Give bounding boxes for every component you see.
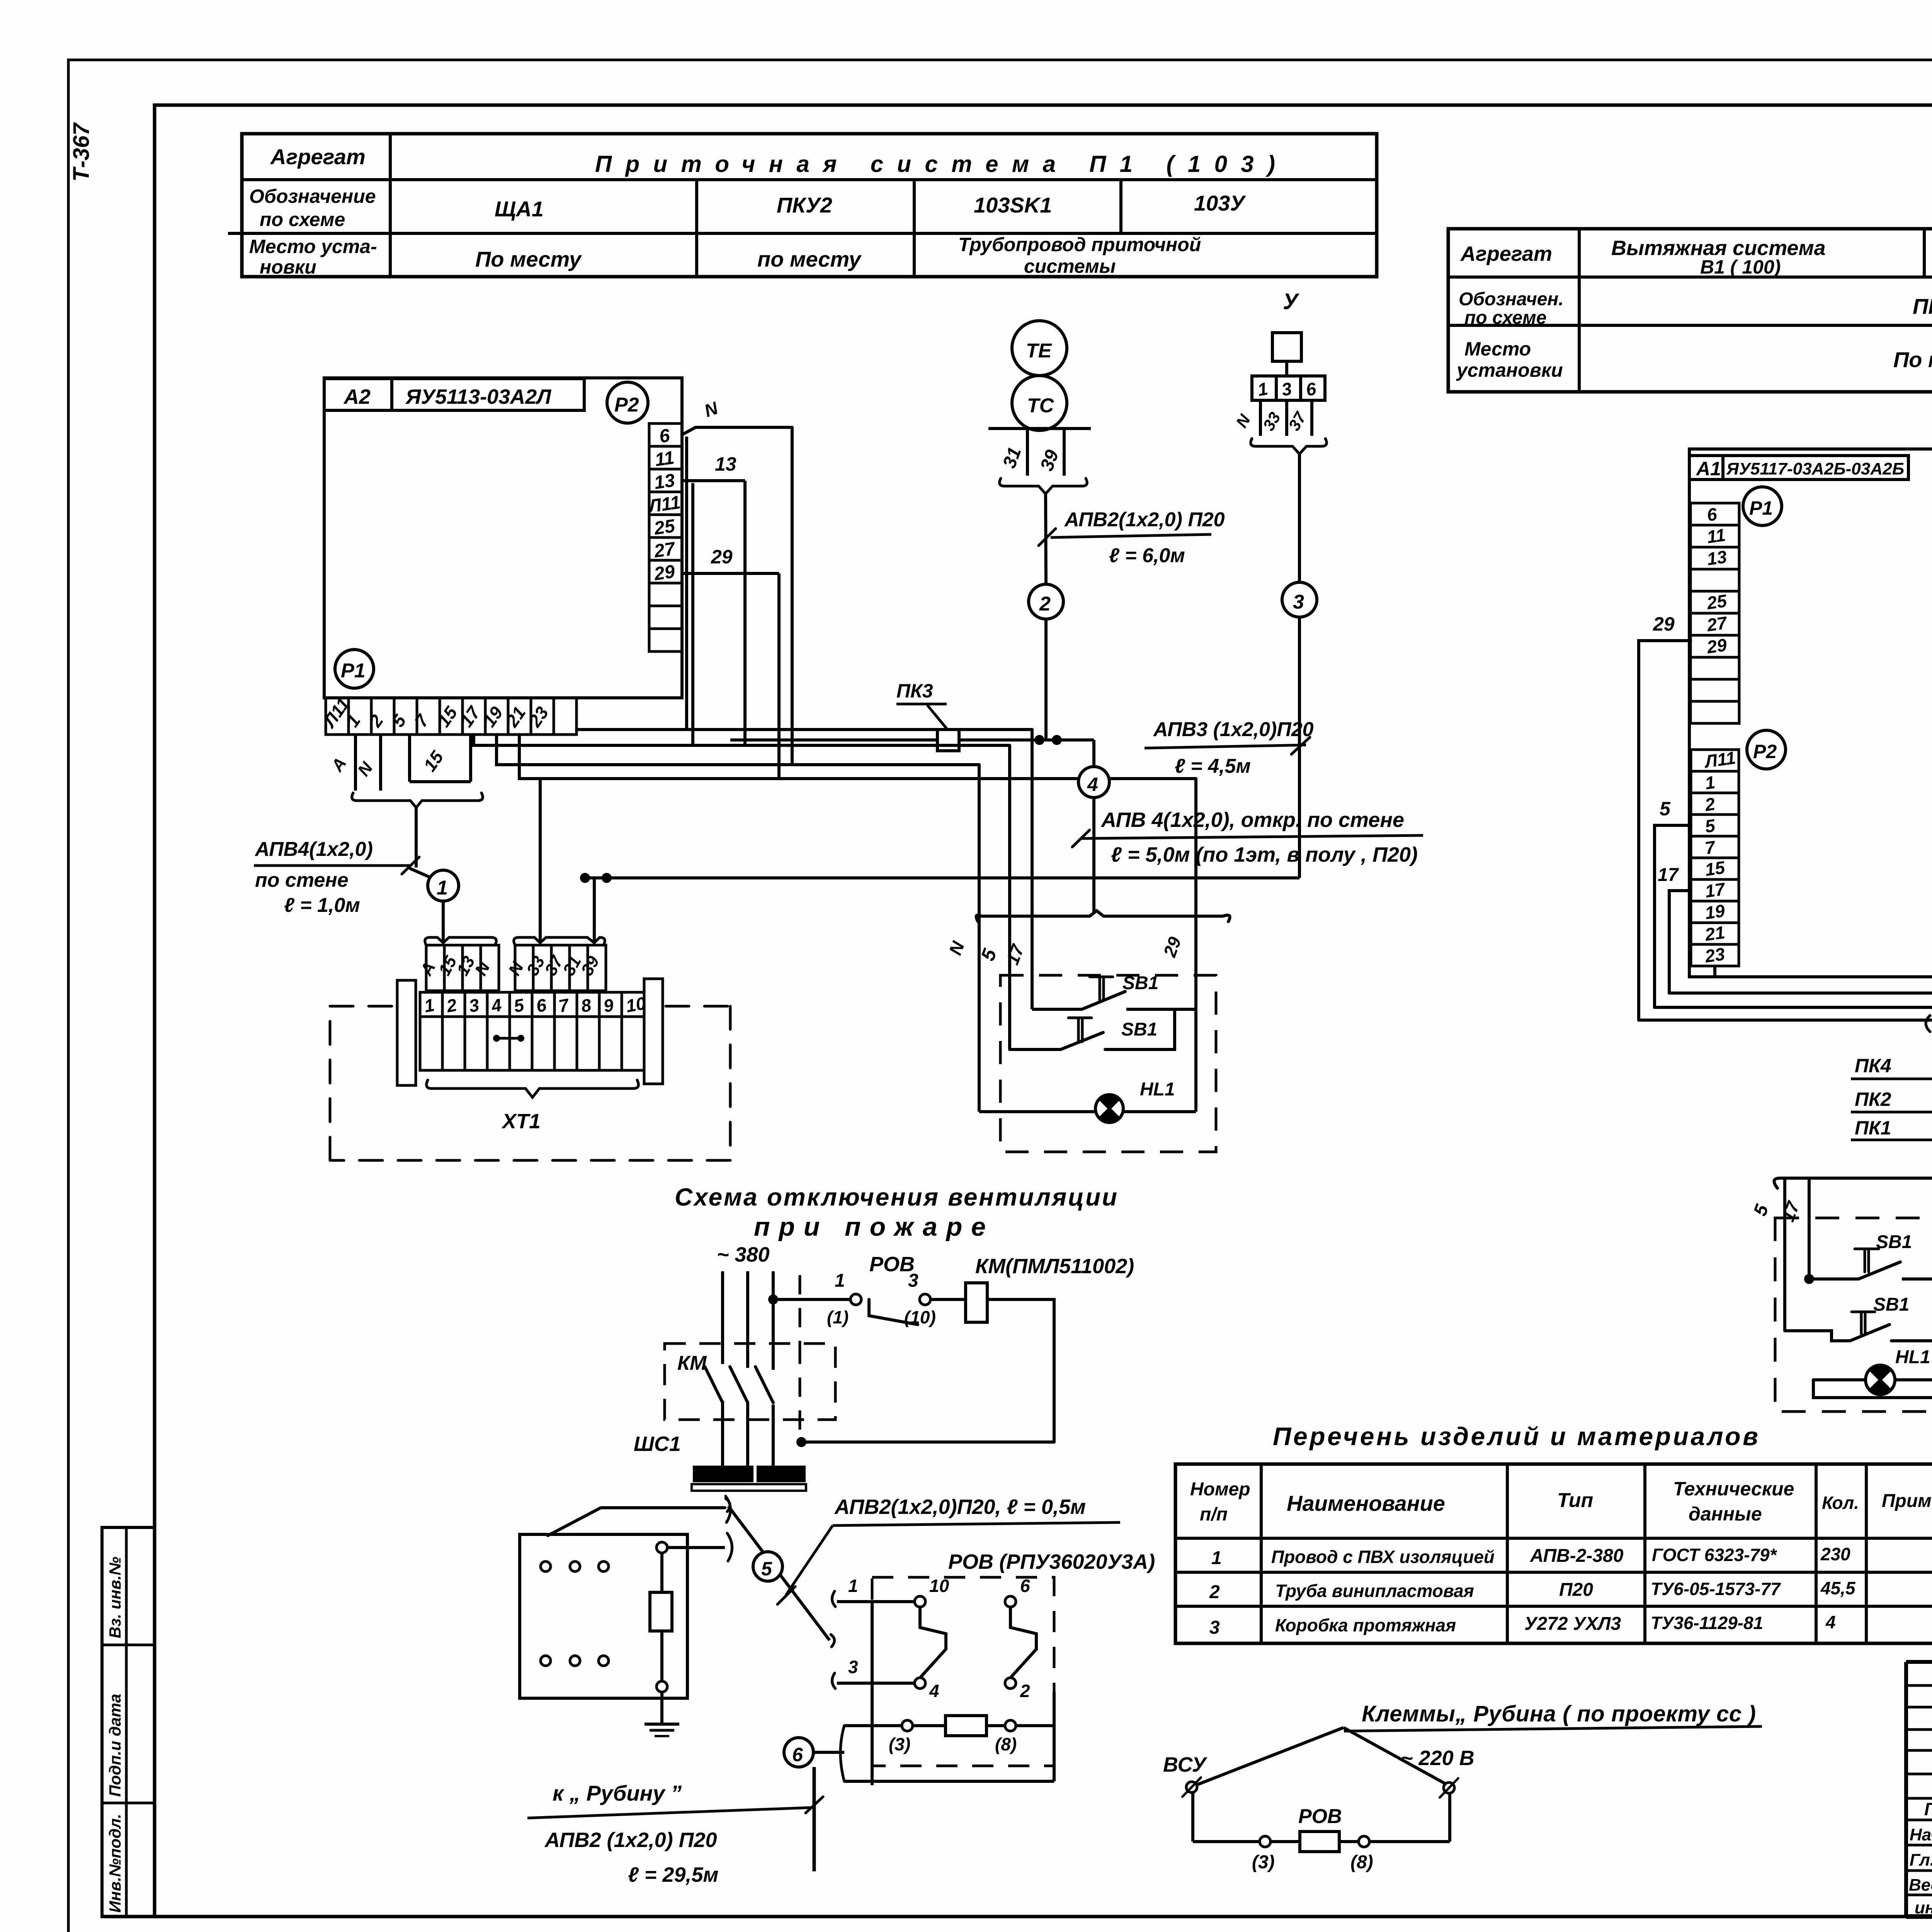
svg-text:1: 1 — [437, 877, 448, 899]
phase line 2 — [746, 1271, 749, 1368]
PK3 pull box — [937, 730, 959, 751]
svg-text:29: 29 — [1705, 634, 1728, 657]
wire down to XT1 group2 right — [593, 878, 596, 943]
wire through PK3 — [730, 738, 937, 742]
terminal cell Л11 P1 — [326, 698, 349, 735]
svg-text:Вед. инж.: Вед. инж. — [1909, 1876, 1932, 1895]
svg-text:~ 380: ~ 380 — [717, 1243, 770, 1266]
XT1 cell 6 — [532, 992, 554, 1017]
Rubin contact dot bottom 1 — [570, 1656, 580, 1666]
wire (3)-(8) row — [844, 1724, 903, 1727]
sensor TE — [1012, 321, 1067, 376]
terminal 10 — [915, 1596, 925, 1607]
svg-text:27: 27 — [653, 538, 677, 561]
long wire to 5-post — [474, 735, 1010, 745]
terminal cell blank P2 — [649, 606, 682, 629]
svg-text:По месту: По месту — [1893, 347, 1932, 372]
XT1 left end bar — [397, 980, 416, 1085]
svg-text:ПК2: ПК2 — [1855, 1088, 1891, 1110]
XT1 upper cell 39 — [588, 945, 606, 991]
wire coil to right drop — [987, 1299, 1054, 1442]
contact blade 10-4 — [920, 1607, 946, 1678]
wire 5 left — [1655, 825, 1691, 1007]
svg-text:(3): (3) — [1252, 1852, 1275, 1872]
table: vytyazhnaya sistema V1/V2 — [1448, 229, 1932, 392]
svg-text:1: 1 — [1211, 1548, 1222, 1568]
terminal cell 21 P1 — [508, 698, 531, 735]
pushbutton SB1 lower — [1010, 1048, 1061, 1051]
ROV contact circle b — [920, 1294, 930, 1305]
svg-text:Нач.ЭТО: Нач.ЭТО — [1910, 1825, 1932, 1844]
resistor ROV heater — [946, 1716, 986, 1736]
svg-text:В1 ( 100): В1 ( 100) — [1700, 256, 1781, 278]
svg-text:ГАП: ГАП — [1924, 1799, 1932, 1819]
stub 31 — [1026, 429, 1029, 476]
Rubin contact dot top 0 — [541, 1561, 551, 1571]
wire to ROV contact — [773, 1298, 851, 1301]
svg-text:У: У — [1283, 289, 1299, 314]
svg-text:(8): (8) — [1350, 1852, 1373, 1872]
XT1 upper cell 33 — [533, 945, 551, 991]
svg-text:Место: Место — [1464, 338, 1531, 360]
terminal cell 15 P1 — [440, 698, 463, 735]
A1 UL cell blank — [1690, 701, 1739, 723]
Rubin contact dot bottom 0 — [541, 1656, 551, 1666]
name rows — [1906, 1819, 1932, 1821]
XT1 upper cell 37 — [551, 945, 570, 991]
ground wire — [660, 1692, 663, 1724]
XT1 cell 8 — [577, 992, 599, 1017]
SB1 blade 1 — [1082, 992, 1125, 1009]
svg-text:У272 УХЛ3: У272 УХЛ3 — [1524, 1614, 1621, 1634]
svg-text:(3): (3) — [889, 1734, 910, 1754]
svg-text:29: 29 — [653, 561, 677, 585]
contact blade 6-2 — [1010, 1607, 1036, 1678]
wire U to marker 3 — [1298, 454, 1301, 582]
svg-text:Инв.№подл.: Инв.№подл. — [106, 1814, 124, 1913]
svg-text:Труба винипластовая: Труба винипластовая — [1275, 1581, 1474, 1601]
slash on diagonal — [777, 1587, 795, 1604]
terminal cell 25 P2 — [649, 515, 682, 537]
wire 17 left — [1669, 891, 1691, 993]
perechen table — [1175, 1464, 1932, 1643]
svg-text:ВСУ: ВСУ — [1163, 1753, 1207, 1776]
svg-text:Коробка протяжная: Коробка протяжная — [1275, 1615, 1456, 1635]
terminal cell 23 P1 — [531, 698, 554, 735]
XT1 cell 2 — [442, 992, 465, 1017]
svg-text:ТУ36-1129-81: ТУ36-1129-81 — [1651, 1613, 1763, 1633]
svg-text:Гл. спец.: Гл. спец. — [1910, 1850, 1932, 1869]
unit box A2 — [324, 378, 682, 698]
U device box — [1272, 333, 1301, 361]
right rail down — [1053, 1692, 1056, 1726]
connector circle P2 of A1 — [1747, 730, 1786, 769]
wire contact to KM coil — [930, 1298, 966, 1301]
bundle line 3 — [1639, 1019, 1932, 1022]
svg-text:23: 23 — [1703, 944, 1726, 966]
svg-text:SB1: SB1 — [1121, 1019, 1157, 1040]
diagonal cable to ROV — [728, 1506, 830, 1640]
A1 LL cell 17 — [1691, 879, 1739, 901]
phase continuations to busbar — [721, 1401, 724, 1468]
U stubs — [1259, 400, 1262, 436]
svg-text:2: 2 — [1209, 1582, 1220, 1602]
post 17 — [1031, 730, 1034, 1009]
svg-text:4: 4 — [929, 1681, 939, 1701]
pushbutton SB1 upper — [1032, 1008, 1082, 1011]
crossing slash APV4-2 — [1072, 830, 1090, 847]
connector circle P1 of A2 — [335, 650, 374, 688]
table: pritochnaya sistema P1(103) — [242, 134, 1377, 277]
wire marker2 to PK3 line — [1044, 619, 1048, 740]
KM coil — [966, 1283, 987, 1322]
svg-text:ЯУ5117-03А2Б-03А2Б: ЯУ5117-03А2Б-03А2Б — [1726, 459, 1904, 478]
svg-text:3: 3 — [848, 1657, 858, 1677]
svg-text:ПК1: ПК1 — [1855, 1117, 1891, 1139]
svg-text:установки: установки — [1456, 359, 1563, 381]
svg-text:Р1: Р1 — [341, 660, 366, 682]
XT1 cell 9 — [599, 992, 622, 1017]
junction dots near marker2 wire — [1034, 735, 1044, 745]
stub wire A below P1 — [354, 735, 357, 791]
roof right — [1344, 1728, 1446, 1784]
svg-text:SB1: SB1 — [1873, 1294, 1909, 1315]
actuator SB1 L2 — [1852, 1312, 1875, 1334]
svg-text:Агрегат: Агрегат — [1460, 242, 1552, 265]
svg-text:п/п: п/п — [1200, 1504, 1228, 1525]
terminal cell 11 P2 — [649, 446, 682, 469]
svg-text:РОВ: РОВ — [869, 1253, 915, 1276]
terminal cell blank P1 — [554, 698, 577, 735]
svg-text:По месту: По месту — [475, 247, 582, 271]
terminal cell 19 P1 — [485, 698, 508, 735]
svg-text:(8): (8) — [995, 1734, 1017, 1754]
cable marker circle 6 — [784, 1738, 813, 1767]
cable wire to marker 1 — [415, 808, 418, 867]
svg-text:25: 25 — [653, 516, 677, 539]
A1 UL cell blank — [1690, 679, 1739, 701]
svg-text:1: 1 — [848, 1576, 858, 1596]
svg-text:АПВ-2-380: АПВ-2-380 — [1530, 1546, 1624, 1566]
Rubin contact dot top 2 — [599, 1561, 609, 1571]
svg-text:Номер: Номер — [1190, 1479, 1250, 1500]
post 29 — [1194, 779, 1197, 1112]
cable label APV2 P20 — [1051, 534, 1211, 537]
wire from marker 6 — [813, 1751, 844, 1754]
svg-text:Место уста-: Место уста- — [249, 236, 377, 257]
crossing slash APV3 — [1291, 737, 1310, 754]
ROV dashed box — [872, 1577, 1054, 1766]
wire from marker 1 to XT1 — [442, 901, 445, 943]
stub wires 5/15 below P1 — [408, 735, 411, 782]
slash k Rubinu — [806, 1797, 823, 1813]
left HL1 lamp wire — [1813, 1378, 1932, 1381]
svg-text:ПК3: ПК3 — [896, 680, 933, 702]
A1 UL cell 13 — [1690, 547, 1739, 569]
svg-text:5: 5 — [1660, 798, 1671, 820]
XT1 jumper link — [497, 1037, 521, 1040]
top collector line of SB1 group — [976, 911, 1230, 922]
brace under XT1 — [427, 1080, 639, 1097]
svg-text:SB1: SB1 — [1122, 973, 1158, 993]
svg-text:КМ: КМ — [677, 1352, 707, 1374]
XT1 upper cell 13 — [463, 945, 481, 991]
svg-text:6: 6 — [1020, 1576, 1030, 1596]
blade SB1 L2 — [1850, 1325, 1889, 1341]
ROV resistor klemmy — [1300, 1832, 1339, 1852]
XT1 upper cell 15 — [444, 945, 463, 991]
KM blade at 1870 — [705, 1367, 723, 1403]
long wire to N-post — [497, 735, 979, 765]
A1 LL cell Л11 — [1691, 750, 1739, 771]
svg-text:ℓ = 29,5м: ℓ = 29,5м — [628, 1863, 718, 1886]
svg-text:Трубопровод приточной: Трубопровод приточной — [958, 234, 1201, 255]
A1 LL cell 1 — [1691, 771, 1739, 793]
svg-text:11: 11 — [1706, 525, 1727, 547]
brace over XT1 group2 — [514, 937, 605, 945]
XT1 cell 1 — [420, 992, 442, 1017]
svg-text:4: 4 — [1825, 1612, 1836, 1632]
svg-text:Тип: Тип — [1557, 1489, 1593, 1512]
crossing slash APV2 — [1039, 529, 1056, 546]
unit A1 label box — [1689, 456, 1908, 480]
svg-text:Наименование: Наименование — [1287, 1491, 1445, 1515]
unit box A1 — [1689, 449, 1932, 977]
terminal cell 6 P2 — [649, 423, 682, 446]
left SB1 upper — [1804, 1274, 1814, 1284]
XT1 cell 5 — [510, 992, 532, 1017]
inner left rail — [871, 1602, 874, 1785]
svg-text:25: 25 — [1705, 590, 1728, 613]
dashed box around groups — [1775, 1218, 1932, 1412]
ROV contact circle a — [850, 1294, 861, 1305]
svg-text:по месту: по месту — [757, 247, 862, 271]
svg-text:13: 13 — [1706, 546, 1728, 569]
svg-text:ТЕ: ТЕ — [1026, 340, 1052, 362]
svg-text:ПКУ2: ПКУ2 — [777, 193, 832, 217]
contact1 input hook — [832, 1591, 835, 1607]
HL1 cross — [1100, 1099, 1119, 1118]
post 17 L — [1808, 1178, 1811, 1279]
XT1 lower tall cells — [420, 1017, 442, 1070]
A1 UL cell 29 — [1690, 635, 1739, 657]
A1 UL cell blank — [1690, 657, 1739, 679]
svg-text:~ 220 В: ~ 220 В — [1401, 1747, 1475, 1770]
A1 LL cell 15 — [1691, 858, 1739, 879]
terminal cell 7 P1 — [417, 698, 440, 735]
svg-text:системы: системы — [1024, 255, 1116, 277]
svg-text:3: 3 — [1293, 591, 1304, 613]
cable marker circle 5 — [753, 1552, 782, 1581]
svg-text:13: 13 — [715, 453, 736, 475]
wire down to XT1 group2 left — [539, 779, 542, 943]
grouping brace below P1 — [352, 793, 483, 808]
leader PK3 — [927, 705, 947, 730]
terminal cell 29 P2 — [649, 560, 682, 583]
brace under U — [1251, 439, 1327, 454]
A1 LL cell 5 — [1691, 815, 1739, 836]
connector circle P2 of A2 — [607, 382, 648, 423]
svg-text:к „ Рубину ”: к „ Рубину ” — [553, 1781, 682, 1805]
svg-text:103У: 103У — [1194, 191, 1246, 215]
terminal cell 1 P1 — [349, 698, 371, 735]
top collector line — [1774, 1178, 1932, 1188]
cable marker circle 2 — [1029, 584, 1063, 619]
bottom strip line above format row — [102, 1915, 1932, 1918]
A1 UL cell 6 — [1690, 503, 1739, 525]
blade SB1 L1 — [1859, 1262, 1900, 1279]
svg-text:АПВ2(1х2,0) П20: АПВ2(1х2,0) П20 — [1064, 509, 1225, 531]
svg-text:Т-367: Т-367 — [69, 122, 94, 182]
wire from terminal 6 down — [685, 437, 688, 730]
wire U box to cells — [1285, 361, 1288, 376]
wire marker 3 down to bottom run — [1298, 617, 1301, 878]
dashed aux line — [799, 1275, 801, 1345]
brace at ROV inputs — [831, 1634, 835, 1647]
slash 220V — [1440, 1778, 1458, 1798]
svg-text:Клеммы„ Рубина ( по проекту сс: Клеммы„ Рубина ( по проекту сс ) — [1362, 1701, 1756, 1726]
svg-text:29: 29 — [711, 546, 733, 568]
Rubin output terminal top — [656, 1542, 667, 1553]
bottom return — [844, 1780, 1054, 1783]
slash VSU — [1182, 1777, 1201, 1797]
terminal (3) — [902, 1720, 913, 1731]
ROV contact blade — [869, 1299, 918, 1325]
svg-text:Перечень изделий и матери: Перечень изделий и материалов — [1273, 1422, 1758, 1451]
XT1 cell 3 — [465, 992, 487, 1017]
svg-text:21: 21 — [1703, 922, 1726, 945]
A1 LL cell 2 — [1691, 793, 1739, 815]
cable label APV3 P20 — [1145, 745, 1306, 748]
svg-text:ШС1: ШС1 — [634, 1432, 681, 1456]
XT1 cell 4 — [487, 992, 510, 1017]
long wire to 29-post — [519, 735, 1196, 779]
SB1 blade 2 — [1061, 1032, 1103, 1049]
post 5 L — [1783, 1178, 1786, 1331]
terminal cell 17 P1 — [463, 698, 485, 735]
svg-text:Агрегат: Агрегат — [270, 145, 366, 169]
right drop — [1448, 1793, 1451, 1842]
wire from terminal 13 down — [691, 483, 694, 745]
svg-text:1: 1 — [835, 1270, 845, 1291]
svg-text:19: 19 — [1704, 900, 1726, 923]
wire to contact 4 — [837, 1682, 915, 1685]
svg-text:Вз. инв.№: Вз. инв.№ — [106, 1557, 124, 1638]
svg-text:Р1: Р1 — [1749, 497, 1773, 519]
dashed enclosure around XT1 — [330, 1006, 730, 1160]
svg-text:ГОСТ 6323-79*: ГОСТ 6323-79* — [1652, 1545, 1777, 1565]
terminal 2 — [1005, 1678, 1016, 1689]
svg-text:Обозначение: Обозначение — [249, 185, 376, 207]
cable label APV4 open on wall — [1081, 835, 1423, 838]
brace at Rubin outputs — [726, 1496, 732, 1561]
svg-text:АПВ3 (1х2,0)П20: АПВ3 (1х2,0)П20 — [1153, 718, 1314, 741]
contact2 input hook — [832, 1673, 835, 1689]
XT1 upper cell N — [481, 945, 499, 991]
wire to contact 10 — [837, 1600, 915, 1603]
title block bottom emphasize — [1906, 1914, 1932, 1919]
brace under TE/TC — [1000, 478, 1087, 494]
svg-text:КМ(ПМЛ511002): КМ(ПМЛ511002) — [975, 1255, 1134, 1278]
svg-text:29: 29 — [1653, 613, 1675, 635]
svg-text:27: 27 — [1705, 612, 1729, 635]
XT1 upper cell А — [426, 945, 444, 991]
junction dot ShS1 — [796, 1437, 806, 1447]
connector circle P1 of A1 — [1743, 487, 1782, 526]
Rubin device box — [520, 1534, 687, 1698]
A1 box bottom edge doubles as bundle line — [1713, 966, 1716, 977]
terminal (3) klemmy — [1260, 1836, 1270, 1847]
svg-text:ℓ = 5,0м (по 1эт, в полу , П20: ℓ = 5,0м (по 1эт, в полу , П20) — [1111, 843, 1418, 866]
A1 UL cell blank — [1690, 569, 1739, 591]
brace over XT1 group1 — [425, 937, 497, 945]
terminal (8) — [1005, 1720, 1016, 1731]
cable label APV2 0.5m — [833, 1522, 1120, 1526]
roof left — [1198, 1728, 1344, 1784]
unit A2 label box — [324, 379, 584, 410]
wire 29 vertical — [777, 573, 781, 779]
terminal cell 13 P2 — [649, 469, 682, 492]
XT1 cell 10 — [622, 992, 644, 1017]
A1 LL cell 19 — [1691, 901, 1739, 923]
TE/TC terminal bar — [988, 427, 1091, 430]
dashed line to dot — [799, 1345, 801, 1442]
terminal 4 — [915, 1678, 925, 1689]
svg-text:4: 4 — [1087, 774, 1098, 795]
busbar ShS1 — [693, 1466, 753, 1482]
post 5 — [1008, 745, 1011, 1049]
svg-text:17: 17 — [1658, 865, 1679, 885]
svg-text:(10): (10) — [904, 1307, 936, 1327]
svg-text:10: 10 — [929, 1576, 949, 1596]
svg-text:при пожаре: при пожаре — [754, 1212, 986, 1242]
svg-text:Подп.и дата: Подп.и дата — [106, 1694, 124, 1797]
svg-text:Р2: Р2 — [614, 394, 639, 416]
svg-text:Приточная система П1 (10: Приточная система П1 (103) — [595, 151, 1275, 177]
terminal 6 — [1005, 1596, 1016, 1607]
wire 29 left of A1 — [1639, 641, 1690, 1020]
cable marker circle 4 — [1078, 767, 1109, 798]
svg-text:103SK1: 103SK1 — [974, 193, 1052, 217]
XT1 upper cell N — [515, 945, 533, 991]
svg-text:Технические: Технические — [1673, 1478, 1794, 1500]
KM blade at 2001 — [755, 1367, 773, 1403]
svg-text:АПВ 4(1х2,0), откр. по стене: АПВ 4(1х2,0), откр. по стене — [1100, 808, 1404, 832]
svg-text:SB1: SB1 — [1876, 1232, 1912, 1252]
svg-text:Обозначен.: Обозначен. — [1459, 289, 1564, 310]
svg-text:данные: данные — [1689, 1503, 1762, 1525]
lamp HL1 — [979, 1110, 1097, 1113]
svg-text:А2: А2 — [343, 385, 371, 408]
svg-text:ПКУ1: ПКУ1 — [1913, 294, 1932, 318]
svg-text:HL1: HL1 — [1895, 1347, 1930, 1367]
hook below busbar — [726, 1498, 730, 1512]
bundle line 1 — [1669, 992, 1932, 995]
SB1 actuator 2 — [1068, 1018, 1092, 1042]
wire N from terminal 6 — [682, 427, 792, 435]
svg-text:ℓ = 1,0м: ℓ = 1,0м — [284, 894, 360, 917]
svg-text:3: 3 — [1209, 1617, 1220, 1638]
wire 29 from P2 — [682, 572, 779, 575]
wire marker6 down — [813, 1767, 816, 1871]
bundle line 2 — [1655, 1006, 1932, 1009]
terminal cell 27 P2 — [649, 537, 682, 560]
KM blade at 1935 — [730, 1367, 748, 1403]
ground — [645, 1723, 679, 1726]
svg-text:ℓ = 4,5м: ℓ = 4,5м — [1175, 755, 1251, 777]
svg-text:ХТ1: ХТ1 — [501, 1110, 541, 1133]
cable marker circle 1 — [410, 869, 430, 877]
